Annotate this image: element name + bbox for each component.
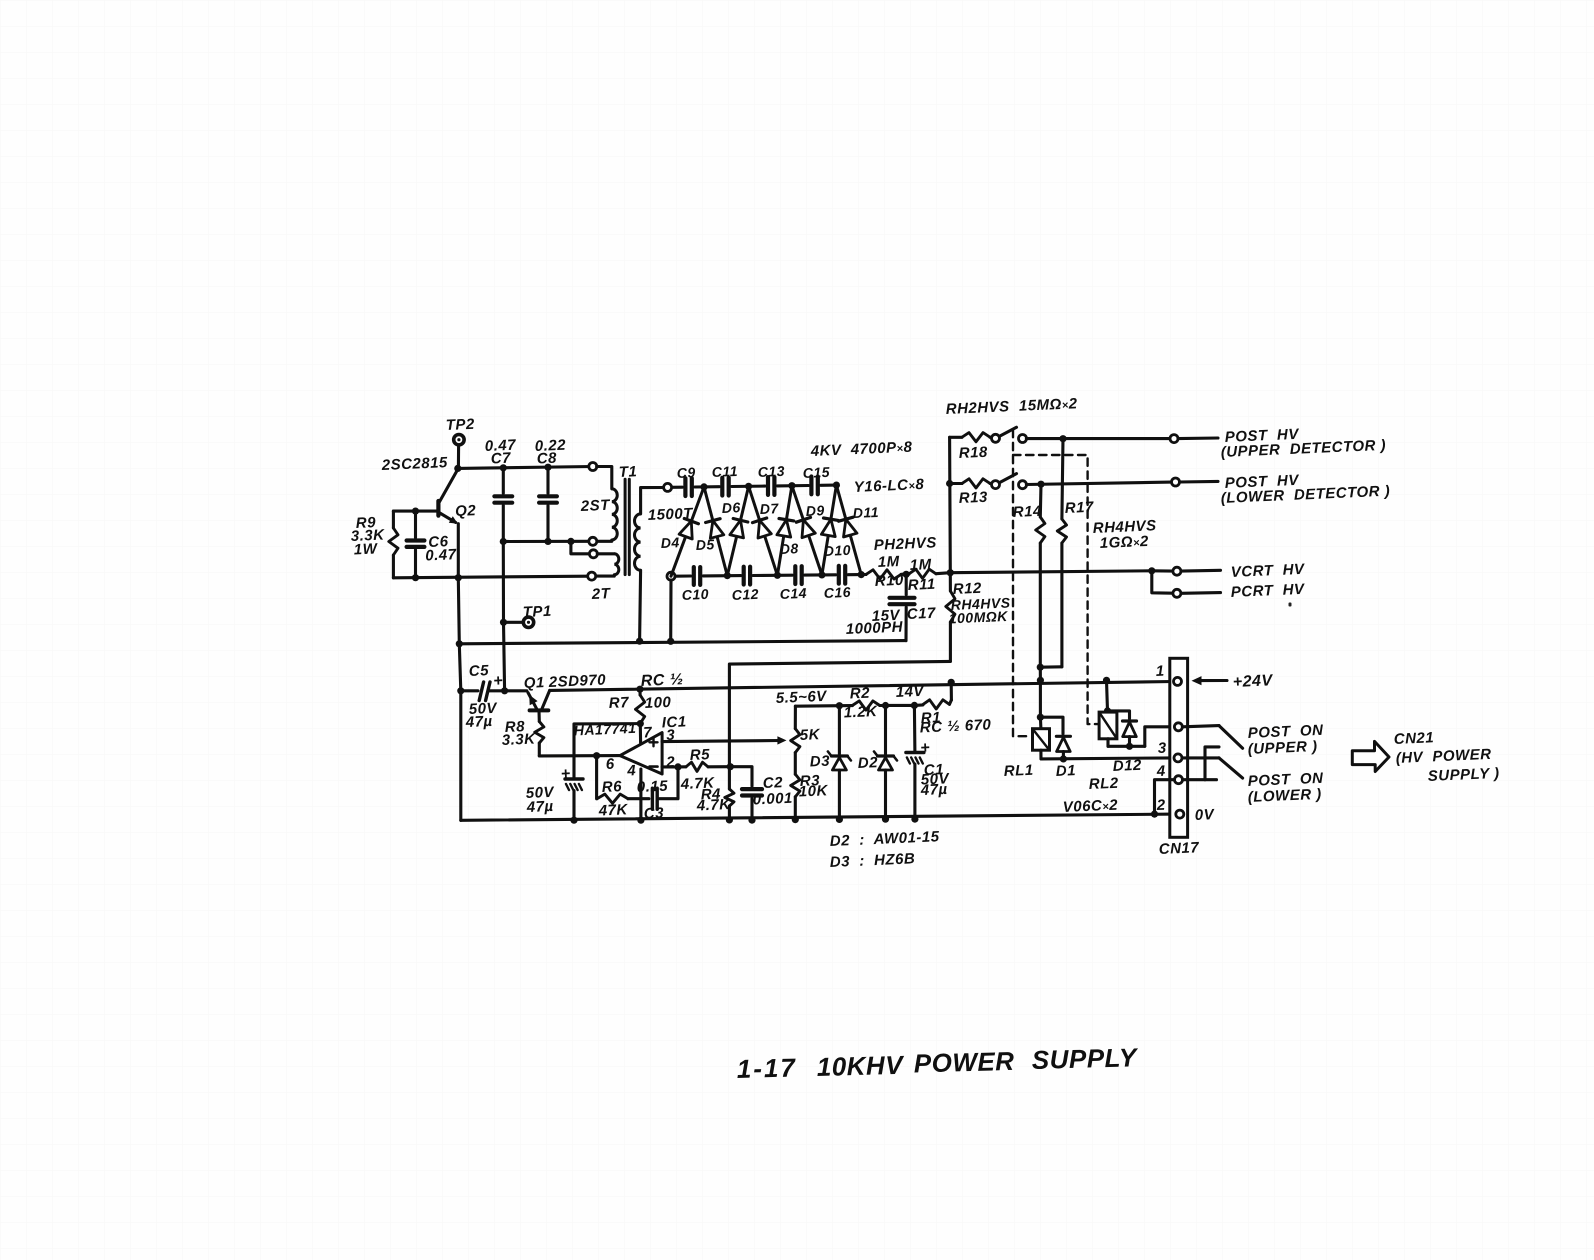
svg-text:R18: R18 [958, 444, 988, 462]
label pin4 [626, 762, 637, 779]
svg-text:C7: C7 [490, 450, 511, 468]
svg-text:0.47: 0.47 [425, 546, 457, 564]
svg-text:RL1: RL1 [1003, 762, 1034, 780]
transformer T1 label [618, 463, 637, 481]
svg-text:100MΩK: 100MΩK [948, 608, 1008, 627]
svg-text:D8: D8 [779, 540, 799, 557]
pin 2 [1155, 797, 1183, 818]
transformer winding 2T [588, 550, 619, 603]
svg-text:14V: 14V [895, 683, 925, 701]
wire RL1 bottom to pin3 [1041, 750, 1174, 759]
wire C7 column to TP1 [502, 542, 505, 623]
svg-text:D12: D12 [1112, 757, 1142, 775]
wire pin3 to 5K wiper [662, 736, 786, 744]
capacitor C8 [534, 437, 566, 542]
node R17 top [1059, 435, 1066, 442]
title [736, 1042, 1139, 1084]
svg-text:+: + [560, 766, 571, 783]
resistor R3 10K [791, 772, 829, 819]
svg-text:3.3K: 3.3K [501, 731, 536, 749]
pin 4 [1155, 763, 1182, 784]
wire R18 row to terminal [1026, 437, 1170, 440]
svg-text:1M: 1M [877, 553, 900, 571]
node bottom row 2 [774, 572, 781, 579]
svg-text:6: 6 [605, 756, 615, 773]
node bottom row 3 [818, 571, 825, 578]
node multiplier input [664, 483, 672, 491]
label C11 [711, 463, 738, 480]
wire R13 row to terminal [1026, 482, 1171, 484]
svg-text:C9: C9 [676, 464, 696, 481]
resistor R7 [608, 689, 671, 723]
node VCRT PCRT split [1148, 567, 1155, 574]
svg-text:R13: R13 [958, 489, 988, 507]
diode D12 [1108, 711, 1143, 775]
node gnd R3 [792, 816, 799, 823]
node emitter rail junction [455, 574, 462, 581]
node R14 top [1037, 481, 1044, 488]
arrow +24V input [1192, 672, 1274, 691]
svg-text:1.2K: 1.2K [843, 703, 878, 721]
resistor R4 [695, 786, 734, 820]
wire pin4 jog [1183, 747, 1220, 780]
svg-text:1-17: 1-17 [736, 1052, 797, 1084]
node D2 top [882, 702, 889, 709]
svg-text:(LOWER ): (LOWER ) [1247, 786, 1322, 806]
zener diode D2 [857, 706, 897, 820]
label POST HV upper [1224, 426, 1300, 446]
label UPPER DETECTOR [1220, 437, 1386, 461]
svg-text:0V: 0V [1194, 806, 1216, 824]
label pin2 [665, 754, 676, 771]
resistor R6 [597, 756, 649, 820]
node bottom row 4 [858, 571, 865, 578]
label C14 [779, 585, 807, 602]
wire multiplier bottom row [675, 575, 861, 577]
svg-text:V06C×2: V06C×2 [1062, 797, 1118, 816]
transformer T1 core [625, 479, 629, 574]
svg-text:5K: 5K [799, 726, 821, 744]
label LOWER DETECTOR [1220, 483, 1390, 507]
node gnd C1 [911, 816, 918, 823]
svg-text:C10: C10 [681, 586, 709, 603]
terminal POST HV lower [1172, 478, 1219, 486]
resistor R5 [678, 746, 730, 793]
node +24 RL2 branch [1103, 677, 1110, 684]
node VCRT branch [947, 569, 954, 576]
capacitor C13 [768, 477, 774, 495]
svg-text:47µ: 47µ [525, 798, 554, 816]
svg-text:+24V: +24V [1232, 672, 1273, 691]
test point TP2 [454, 435, 464, 469]
terminal VCRT HV [1152, 567, 1221, 575]
svg-text:(UPPER ): (UPPER ) [1247, 738, 1318, 758]
node R1 top [948, 679, 955, 686]
wire multiplier bottom to rail [667, 580, 674, 645]
wire R12 to feedback [729, 661, 950, 789]
capacitor C5 [468, 662, 504, 700]
node R7 top [636, 686, 643, 693]
svg-text:4: 4 [1155, 763, 1166, 780]
svg-text:C8: C8 [536, 450, 557, 468]
wire pin upper to POST ON [1182, 726, 1242, 749]
node top row 1 [700, 483, 707, 490]
label POST ON lower [1247, 770, 1324, 806]
test point TP1 [500, 603, 552, 628]
svg-text:10KHV: 10KHV [816, 1050, 905, 1082]
capacitor C6 [407, 508, 457, 578]
label 14V [895, 683, 925, 701]
label C16 [823, 584, 851, 601]
capacitor C17 [845, 574, 936, 640]
wire pin7 stub [640, 724, 652, 743]
capacitor C10 [694, 567, 700, 585]
node RL1 top split [1037, 714, 1044, 721]
diode D1 [1040, 717, 1076, 780]
label 4KV 4700P x8 [809, 439, 912, 460]
node op-amp supply [637, 720, 644, 727]
svg-text:C15: C15 [802, 464, 830, 481]
svg-text:1GΩ×2: 1GΩ×2 [1099, 533, 1149, 552]
svg-text:1: 1 [1155, 663, 1165, 680]
transformer secondary winding 1500T [634, 488, 694, 642]
node gnd 0V [1151, 811, 1158, 818]
svg-text:CN17: CN17 [1158, 839, 1199, 858]
svg-text:C11: C11 [711, 463, 738, 480]
node Q2 collector junction [454, 465, 461, 472]
label POST ON upper [1247, 722, 1324, 758]
wire tap to 2T winding [567, 538, 589, 554]
node +24 RL1 branch [1037, 677, 1044, 684]
svg-text:C12: C12 [731, 586, 759, 603]
node multiplier bottom input [667, 572, 675, 580]
transistor Q2 [416, 469, 477, 524]
label HA17741 [573, 720, 636, 739]
label D3 type [829, 850, 915, 871]
svg-text:1000PH: 1000PH [845, 618, 904, 638]
svg-text:R2: R2 [849, 685, 870, 703]
svg-text:Q2: Q2 [455, 502, 477, 520]
svg-text:100: 100 [644, 694, 671, 712]
svg-text:C5: C5 [468, 662, 489, 680]
svg-text:D4: D4 [660, 534, 680, 551]
svg-text:0.001: 0.001 [752, 790, 793, 809]
svg-text:D1: D1 [1055, 762, 1076, 780]
capacitor C2 [730, 767, 793, 820]
label D4 [660, 534, 680, 551]
resistor R8 [501, 718, 543, 756]
svg-text:POWER: POWER [913, 1046, 1014, 1079]
wire RL2 bottom to pin [1108, 727, 1174, 747]
svg-text:2SD970: 2SD970 [547, 672, 606, 692]
label RC 1/2 [640, 671, 684, 690]
label D6 [721, 499, 741, 516]
label D7 [759, 500, 779, 517]
capacitor C9 [685, 478, 691, 496]
svg-text:R5: R5 [689, 746, 710, 764]
capacitor C12 [744, 567, 750, 585]
svg-text:R7: R7 [608, 694, 629, 712]
scan speck artifact [1289, 603, 1292, 607]
wire TP1 column down [504, 622, 505, 691]
node top row 3 [788, 482, 795, 489]
label Y16-LC x8 [853, 476, 924, 496]
test point TP2 label [445, 416, 475, 434]
svg-text:RL2: RL2 [1088, 775, 1119, 793]
node R5 feedback junction [727, 763, 734, 770]
svg-text:CN21: CN21 [1393, 729, 1434, 748]
node gnd D3 [836, 816, 843, 823]
label CN17 [1158, 839, 1199, 858]
node R10 R11 junction [903, 571, 910, 578]
wire reference row [795, 704, 914, 708]
svg-text:D9: D9 [805, 502, 825, 519]
dashed gang link branch to RL2 [1013, 455, 1098, 724]
svg-text:VCRT HV: VCRT HV [1230, 561, 1306, 581]
svg-text:47µ: 47µ [464, 713, 493, 731]
wire multiplier top row [672, 485, 837, 487]
wire pin2 stub [662, 765, 674, 768]
label V06C x2 [1062, 797, 1118, 816]
connector CN17 body [1170, 658, 1188, 837]
svg-text:C17: C17 [906, 605, 936, 623]
node top row 2 [745, 483, 752, 490]
label 0V [1194, 806, 1216, 824]
label C9 [676, 464, 696, 481]
wire RL1 feed [1039, 680, 1042, 717]
wire oscillator bottom [393, 576, 588, 578]
capacitor C15 [811, 477, 817, 495]
resistor R11 [903, 556, 951, 594]
diode D8 [777, 486, 794, 576]
wire primary tap row [500, 538, 589, 545]
svg-text:1M: 1M [909, 556, 932, 574]
switch S1 (R18 row) [992, 427, 1027, 442]
node RL2 top split [1104, 707, 1111, 714]
label D10 [823, 542, 851, 559]
resistor R13 [950, 479, 992, 507]
transformer primary winding 2ST [579, 463, 617, 546]
svg-text:3: 3 [1157, 740, 1167, 757]
svg-text:PCRT HV: PCRT HV [1230, 581, 1306, 601]
node gnd R4 [726, 816, 733, 823]
svg-text:RC ½: RC ½ [640, 671, 684, 690]
svg-text:TP2: TP2 [445, 416, 475, 434]
label C5 values [464, 700, 498, 731]
node C6 bottom [412, 574, 419, 581]
svg-text:47µ: 47µ [919, 781, 948, 799]
svg-text:2: 2 [1155, 797, 1166, 814]
node C5 right [501, 687, 508, 694]
wire left rail to C5 row [459, 644, 461, 691]
capacitor C1 [906, 705, 951, 819]
transistor Q1 [505, 672, 607, 722]
relay RL2 coil [1088, 711, 1119, 793]
svg-text:2ST: 2ST [579, 497, 611, 515]
svg-text:4: 4 [626, 762, 637, 779]
svg-text:C13: C13 [757, 463, 785, 480]
potentiometer 5K [791, 706, 821, 774]
resistor R10 [861, 534, 937, 590]
diode D5 [704, 487, 727, 576]
svg-text:TP1: TP1 [522, 603, 552, 621]
resistor R2 1.2K [843, 685, 879, 722]
capacitor C16 [839, 566, 845, 584]
node R6 branch [593, 752, 600, 759]
node R13 branch [946, 480, 953, 487]
label D8 [779, 540, 799, 557]
diode D11 [836, 485, 861, 574]
svg-text:R6: R6 [601, 778, 622, 796]
wire pin4 to 0V rail [1155, 780, 1175, 814]
svg-text:4.7K: 4.7K [679, 775, 715, 794]
svg-text:4.7K: 4.7K [695, 796, 731, 815]
wire top oscillator rail [458, 467, 593, 469]
node gnd cap [570, 817, 577, 824]
label 5.5~6V [775, 688, 828, 707]
svg-text:0.15: 0.15 [636, 778, 668, 796]
wire pin3 to POST ON [1182, 758, 1243, 778]
label RH2HVS 15M ohm x2 [945, 395, 1078, 418]
node 14V [911, 702, 918, 709]
svg-text:T1: T1 [618, 463, 637, 481]
node top row 4 [833, 482, 840, 489]
svg-text:SUPPLY ): SUPPLY ) [1427, 765, 1499, 785]
zener diode D3 [809, 706, 850, 820]
node pin2 [674, 763, 681, 770]
svg-text:R14: R14 [1012, 503, 1042, 521]
capacitor C7 [484, 437, 516, 542]
svg-text:+: + [920, 740, 931, 757]
svg-text:D10: D10 [823, 542, 851, 559]
svg-text:D3: D3 [809, 753, 830, 771]
label 2SC2815 [380, 454, 448, 474]
diode D9 [792, 486, 822, 575]
svg-text:5.5~6V: 5.5~6V [775, 688, 828, 707]
svg-text:PH2HVS: PH2HVS [873, 534, 937, 554]
svg-text:D5: D5 [695, 536, 715, 553]
switch S2 (R13 row) [992, 474, 1027, 489]
node gnd pin4 [637, 817, 644, 824]
svg-text:2T: 2T [590, 585, 612, 603]
diode D7 [749, 486, 778, 575]
capacitor C11 [722, 478, 728, 496]
wire pin4 to ground [639, 769, 642, 820]
pin 1 [1155, 663, 1181, 686]
diode D4 [671, 487, 704, 576]
node gnd C2 [748, 817, 755, 824]
resistor R14 [1012, 484, 1044, 667]
node D3 top [836, 702, 843, 709]
capacitor 47u op-amp supply [525, 766, 583, 821]
node R14 R17 join [1037, 664, 1062, 681]
relay RL1 coil [1003, 717, 1049, 780]
label D5 [695, 536, 715, 553]
svg-text:SUPPLY: SUPPLY [1031, 1042, 1139, 1075]
svg-text:10K: 10K [798, 782, 828, 800]
resistor R17 [1057, 439, 1094, 667]
svg-text:C16: C16 [823, 584, 851, 601]
block arrow CN21 [1352, 741, 1389, 771]
diode D10 [821, 485, 838, 575]
label POST HV lower [1224, 472, 1300, 492]
label C10 [681, 586, 709, 603]
svg-text:D7: D7 [759, 500, 779, 517]
svg-text:47K: 47K [597, 801, 628, 819]
svg-text:R10: R10 [874, 572, 904, 590]
wire VCRT row [950, 571, 1152, 573]
diode D6 [727, 486, 748, 575]
label D2 type [829, 828, 940, 850]
node bottom row 1 [724, 572, 731, 579]
terminal POST HV upper [1170, 435, 1218, 443]
label D11 [852, 504, 879, 521]
svg-text:+: + [493, 673, 504, 690]
svg-text:D2: D2 [857, 754, 878, 772]
label pin6 [605, 756, 615, 773]
svg-text:R17: R17 [1064, 499, 1094, 517]
resistor R18 [950, 433, 992, 462]
label C15 [802, 464, 830, 481]
resistor R1 [914, 682, 991, 736]
wire C5 row left [457, 687, 478, 694]
pin 3 [1157, 740, 1182, 762]
label pin3 [666, 727, 676, 744]
svg-text:Q1: Q1 [523, 674, 545, 692]
label C13 [757, 463, 785, 480]
label IC1 [661, 713, 687, 731]
label C12 [731, 586, 759, 603]
dashed gang link switches to RL1 [1013, 430, 1032, 736]
node RL2 D12 bottom [1126, 743, 1133, 750]
label PCRT HV [1230, 581, 1306, 601]
pin post-on upper [1174, 723, 1182, 731]
wire emitter column to rail [458, 578, 459, 644]
resistor R9 [350, 511, 415, 578]
wire +24V main row [550, 682, 1174, 691]
capacitor C14 [795, 566, 801, 584]
label RH4HVS 1G ohm x2 [1092, 517, 1157, 552]
label D9 [805, 502, 825, 519]
svg-text:C14: C14 [779, 585, 807, 602]
wire op-amp output row [539, 754, 620, 757]
wire Q2 emitter drop [457, 524, 460, 578]
wire bottom ground rail [461, 814, 1176, 820]
svg-text:RC ½ 670: RC ½ 670 [919, 716, 991, 736]
label SUPPLY [1427, 765, 1499, 785]
wire HV column [948, 437, 952, 591]
capacitor C3 [636, 767, 678, 823]
node gnd D2 [882, 816, 889, 823]
svg-text:1W: 1W [353, 540, 379, 558]
node RL1 D1 bottom [1060, 755, 1067, 762]
wire ground return rail [456, 638, 906, 648]
resistor R12 [946, 580, 1011, 662]
svg-text:HA17741: HA17741 [573, 720, 636, 739]
svg-text:D11: D11 [852, 504, 879, 521]
label HV POWER [1395, 746, 1491, 767]
svg-text:2SC2815: 2SC2815 [380, 454, 448, 474]
wire left rail down [459, 691, 462, 821]
svg-text:R11: R11 [907, 576, 936, 594]
terminal PCRT HV [1152, 571, 1221, 598]
wire supply to bypass cap [574, 724, 640, 779]
label VCRT HV [1230, 561, 1306, 581]
label CN21 [1393, 729, 1434, 748]
svg-text:D6: D6 [721, 499, 741, 516]
wire RL2 feed [1107, 680, 1108, 711]
op-amp U1 IC1 [620, 733, 662, 774]
